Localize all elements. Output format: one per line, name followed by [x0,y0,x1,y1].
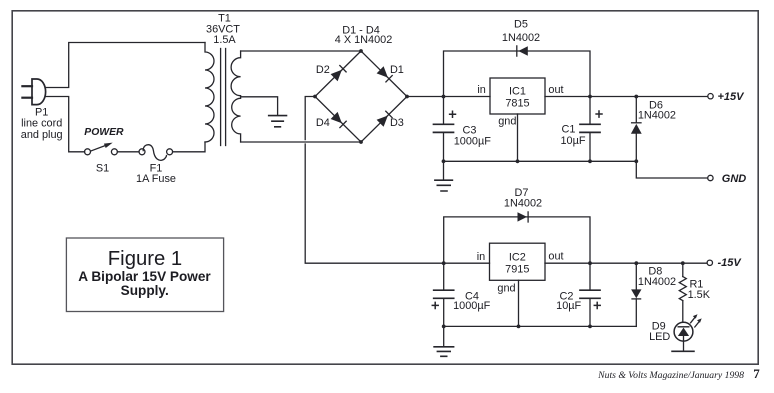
switch S1 arm [91,145,107,151]
svg-text:P1: P1 [35,106,48,118]
node junction D6 top [634,95,638,99]
capacitor C2 [580,263,600,326]
diode D5 [517,46,528,56]
ground (below LED D9) [672,350,694,352]
wire plug upper lead to loop top [46,43,205,88]
svg-text:D4: D4 [316,117,330,129]
svg-text:in: in [477,251,485,263]
node junction D8 top [634,261,638,265]
svg-text:D3: D3 [390,117,404,129]
svg-text:gnd: gnd [498,116,516,128]
svg-text:gnd: gnd [497,282,515,294]
node lower gnd rail at C2 [588,325,592,329]
capacitor C3 [434,97,456,162]
node bridge right vertex [405,95,409,99]
node gnd rail at C3 [442,159,446,163]
node gnd rail at C1 [588,159,592,163]
wire plug lower lead to switch [46,97,85,152]
diode D8 [631,263,641,326]
node junction R1 top [681,261,685,265]
node junction D7-out/C2 [588,261,592,265]
wire bridge right vertex to IC1 in [407,96,490,98]
svg-text:out: out [548,251,563,263]
svg-text:1.5K: 1.5K [688,289,711,301]
svg-text:1A Fuse: 1A Fuse [136,173,176,185]
svg-text:out: out [548,84,563,96]
svg-text:7815: 7815 [505,97,529,109]
diode D1 [377,66,393,82]
transformer T1 secondary winding lower [232,97,241,142]
svg-text:1N4002: 1N4002 [638,110,676,122]
wire bridge diamond edges [315,51,407,142]
node gnd rail at D6 [634,159,638,163]
svg-text:D2: D2 [316,64,330,76]
wire GND output [636,161,707,178]
op-amp IC1 box [490,78,545,114]
node bridge bottom vertex [359,140,363,144]
svg-text:1.5A: 1.5A [213,34,236,46]
svg-text:GND: GND [722,173,747,185]
wire S1 to F1 [117,151,139,153]
wire lower circuit ground rail [444,325,637,327]
svg-text:1000µF: 1000µF [454,135,492,147]
svg-text:IC1: IC1 [509,85,526,97]
svg-text:1000µF: 1000µF [453,300,491,312]
svg-text:7: 7 [753,366,760,381]
svg-text:10µF: 10µF [560,135,585,147]
wire IC2 out rail to -15V terminal [545,262,707,264]
svg-text:Supply.: Supply. [121,283,169,298]
transformer T1 primary winding [205,43,214,143]
diode D7 [518,212,529,222]
diode D4 [331,112,347,128]
wire D5 bypass loop [444,51,591,97]
svg-text:Nuts & Volts Magazine/January: Nuts & Volts Magazine/January 1998 [597,370,744,381]
svg-text:1N4002: 1N4002 [638,276,676,288]
svg-text:1N4002: 1N4002 [502,32,540,44]
node lower gnd rail at IC2 gnd [517,325,521,329]
switch S1 [85,149,91,155]
wire D7 bypass loop [444,217,590,263]
transformer T1 secondary winding upper [231,51,241,97]
svg-text:C1: C1 [562,123,576,135]
svg-text:POWER: POWER [84,127,124,138]
svg-text:S1: S1 [96,163,109,175]
wire secondary bottom lead to bridge bottom [241,141,361,143]
svg-text:4 X 1N4002: 4 X 1N4002 [335,34,393,46]
svg-text:LED: LED [649,331,670,343]
ground (below C3) [435,161,453,191]
capacitor C4 [432,263,453,326]
wire IC2 gnd pin [518,280,520,326]
wire IC1 gnd pin [517,114,519,161]
wire bridge left vertex down to IC2 in [305,97,489,264]
svg-text:D5: D5 [514,19,528,31]
transformer T1 core [220,49,222,146]
svg-text:and plug: and plug [21,129,63,141]
plug prong upper [22,85,32,87]
node junction C4/rail [442,261,446,265]
plug P1 [32,79,46,105]
svg-text:+15V: +15V [718,91,746,103]
node lower gnd rail at C4 [442,325,446,329]
svg-text:1N4002: 1N4002 [504,198,542,210]
wire secondary top lead to bridge top [241,50,361,52]
plug prong lower [22,97,32,99]
svg-text:-15V: -15V [718,257,743,269]
ground (below C4) [434,326,454,356]
node bridge top vertex [359,49,363,53]
diode D3 [377,111,393,127]
diode D6 [631,97,642,162]
ground (center tap) [269,116,287,127]
fuse F1 [139,149,145,155]
svg-text:IC2: IC2 [509,252,526,264]
figure caption box [66,238,223,312]
capacitor C1 [580,97,602,162]
svg-text:7915: 7915 [505,264,529,276]
wire center tap [241,97,278,115]
resistor R1 [679,263,686,322]
node junction D5-out/C1 [588,95,592,99]
LED D9 [674,314,702,351]
terminal GND [708,175,713,180]
op-amp IC2 box [490,243,546,280]
wire IC1 out rail to +15V terminal [545,96,708,98]
terminal -15V [707,260,712,265]
wire top circuit ground rail [444,160,637,162]
svg-text:D1: D1 [390,64,404,76]
svg-text:10µF: 10µF [556,300,581,312]
svg-text:in: in [477,84,485,96]
diode D2 [331,66,347,82]
svg-text:Figure 1: Figure 1 [108,248,182,270]
svg-text:line cord: line cord [21,118,62,130]
node bridge left vertex [313,95,317,99]
node junction C3/rail [442,95,446,99]
wire F1 to transformer primary bottom [173,142,205,152]
terminal +15V [708,94,713,99]
node gnd rail at IC1 gnd [516,159,520,163]
